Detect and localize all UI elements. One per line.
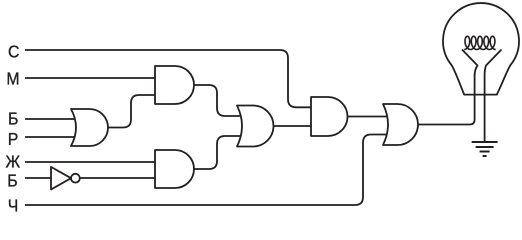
svg-text:Б: Б	[7, 170, 17, 190]
svg-text:Р: Р	[8, 129, 19, 149]
svg-text:Б: Б	[8, 109, 18, 129]
svg-text:М: М	[6, 69, 19, 89]
svg-text:Ж: Ж	[6, 151, 21, 171]
svg-text:С: С	[8, 42, 19, 62]
svg-text:Ч: Ч	[8, 196, 19, 216]
